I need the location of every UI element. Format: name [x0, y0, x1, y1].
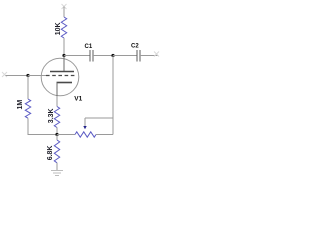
- junction dot output node: [111, 54, 114, 57]
- cathode bar: [57, 82, 73, 84]
- grid dashed line: [46, 75, 75, 77]
- svg-text:C2: C2: [131, 44, 139, 50]
- plate lead: [63, 56, 65, 72]
- wire 3.3K to cathode node: [56, 128, 58, 135]
- terminal x (output, right): [154, 52, 159, 57]
- resistor 1M (grid leak): [25, 99, 30, 118]
- wire supply stub: [63, 7, 65, 18]
- junction dot cathode node: [55, 133, 58, 136]
- wire C1 to output node: [93, 55, 113, 57]
- cathode lead inside: [56, 83, 58, 97]
- svg-text:V1: V1: [74, 96, 82, 103]
- wire 1M to bottom rail: [28, 118, 57, 134]
- wire cathode node to 6.8K: [56, 135, 58, 141]
- terminal x (input, left): [2, 72, 7, 77]
- resistor 10K (plate load): [61, 17, 66, 38]
- svg-text:3.3K: 3.3K: [48, 108, 55, 123]
- wire input to grid node: [6, 75, 29, 77]
- capacitor C1: [90, 50, 93, 62]
- wire grid node to tube grid: [28, 75, 46, 77]
- terminal x (supply, top): [62, 4, 67, 9]
- wire pot right terminal: [96, 134, 113, 136]
- ground: [51, 171, 63, 176]
- wire 10K to plate node: [63, 38, 65, 56]
- wire cathode to 3.3K: [56, 96, 58, 107]
- resistor 3.3K (cathode): [54, 107, 59, 128]
- wiper arrow: [83, 118, 86, 129]
- resistor 6.8K (tail): [54, 140, 59, 163]
- triode V1: [41, 56, 79, 97]
- wire 6.8K to ground: [56, 163, 58, 171]
- wire plate node to C1: [64, 55, 90, 57]
- plate bar: [50, 71, 74, 73]
- wire wiper to feedback: [85, 117, 113, 119]
- capacitor C2: [137, 50, 140, 62]
- wire C2 to right terminal: [140, 55, 158, 57]
- junction dot plate node: [62, 54, 65, 57]
- wire grid node down to 1M: [27, 76, 29, 100]
- svg-text:6.8K: 6.8K: [47, 146, 54, 161]
- svg-text:10K: 10K: [55, 22, 62, 35]
- potentiometer body: [75, 132, 96, 137]
- svg-text:C1: C1: [85, 44, 93, 50]
- junction dot grid node: [26, 74, 29, 77]
- wire feedback vertical: [112, 56, 114, 135]
- wire cathode node to potentiometer: [57, 134, 75, 136]
- svg-text:1M: 1M: [17, 100, 24, 110]
- wire output node to C2: [113, 55, 137, 57]
